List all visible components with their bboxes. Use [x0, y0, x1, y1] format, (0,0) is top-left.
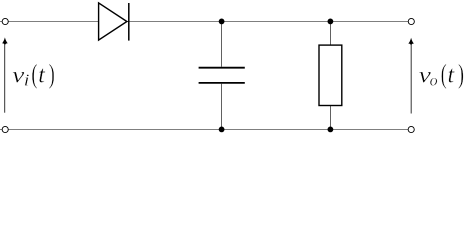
svg-text:i: i [24, 71, 30, 90]
svg-text:): ) [49, 59, 55, 89]
svg-text:o: o [430, 73, 438, 90]
svg-text:): ) [458, 59, 464, 89]
svg-text:(: ( [32, 59, 38, 89]
svg-text:(: ( [441, 59, 447, 89]
